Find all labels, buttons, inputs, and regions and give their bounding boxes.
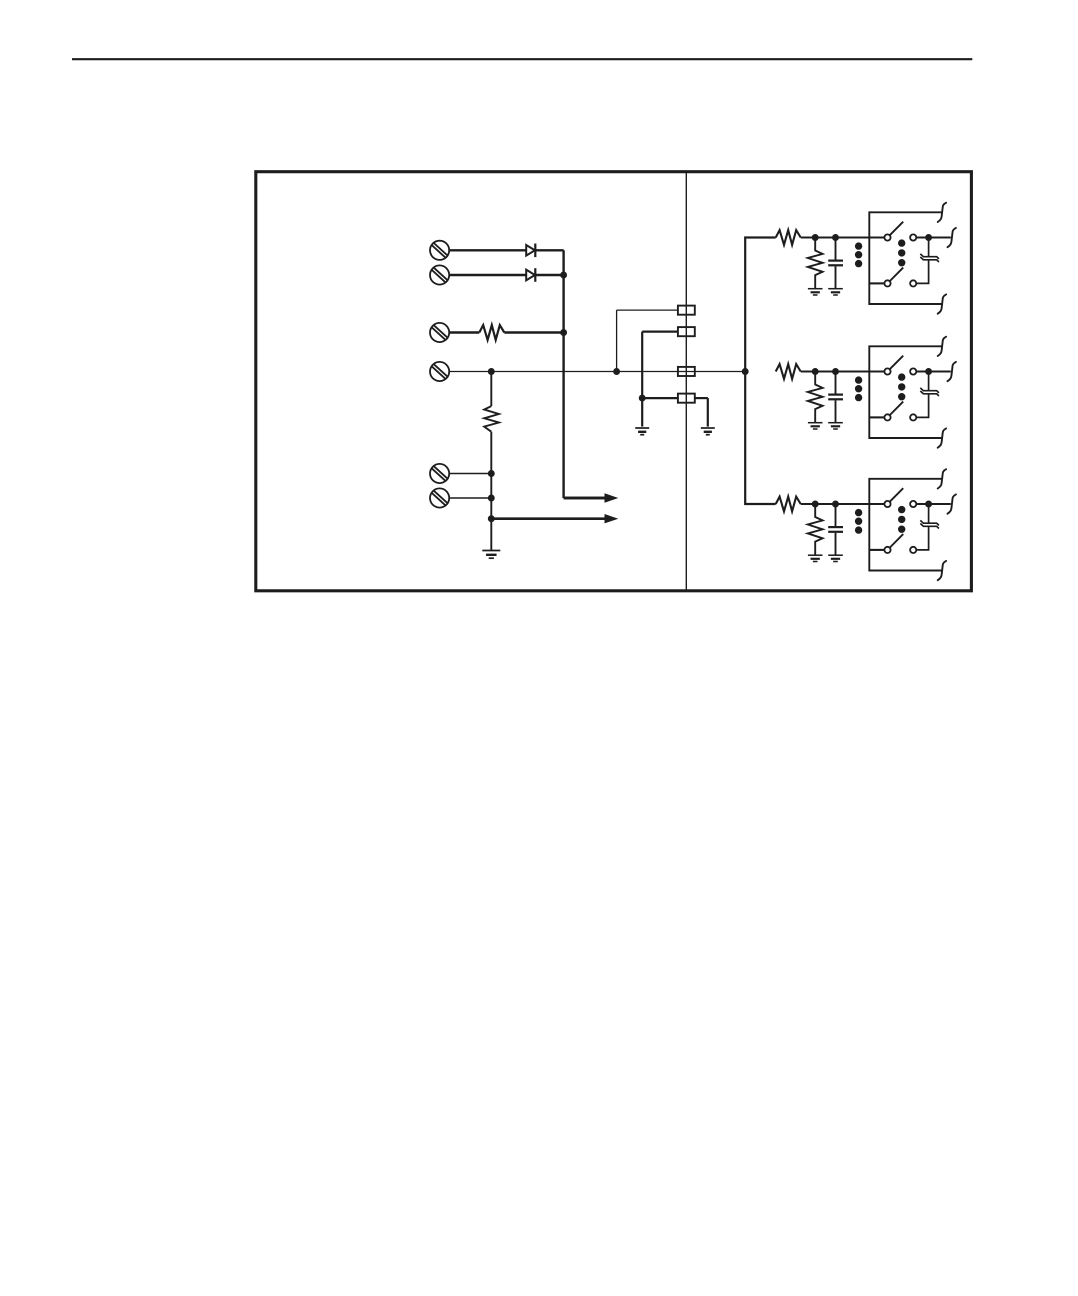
wire K3 output to hook — [916, 503, 951, 505]
switch arm K3 contact 1 — [890, 488, 903, 501]
wire drop to node E — [616, 310, 618, 371]
wire relay K1 lower contact feed — [869, 282, 884, 284]
wire T6 to node G — [449, 497, 491, 499]
cable hook K3 bottom — [938, 561, 946, 580]
relay K2 outline box — [869, 346, 942, 438]
junction node H — [488, 515, 495, 522]
mechanical link dots K1 — [898, 239, 905, 266]
capacitor C2b (bent-plate) — [916, 375, 939, 418]
contact pivot circle K1-1L — [884, 234, 890, 240]
junction node E — [613, 368, 620, 375]
contact pivot circle K3-1L — [884, 501, 890, 507]
relay K1 outline box — [869, 212, 942, 304]
contact pivot circle K3-2L — [884, 547, 890, 553]
contact circle K1-1R — [910, 234, 916, 240]
resistor R3a — [776, 497, 801, 512]
contact circle K3-1R — [910, 501, 916, 507]
schematic outer border box — [256, 172, 972, 591]
wire bus corner to arrow 1 — [564, 497, 605, 500]
contact pivot circle K2-2L — [884, 414, 890, 420]
wire relay K2 lower contact feed — [869, 416, 884, 418]
contact circle K2-2R — [910, 414, 916, 420]
switch arm K1 contact 2 — [890, 268, 903, 281]
ground G2a — [808, 423, 823, 429]
contact pivot circle K2-1L — [884, 368, 890, 374]
ground G1a — [808, 289, 823, 295]
resistor R2a — [776, 364, 801, 379]
cable hook K2 top — [938, 337, 946, 356]
resistor R2 — [484, 406, 499, 432]
connector pin J1 — [678, 306, 695, 315]
wire R3a into relay K3 — [801, 503, 885, 505]
terminal screw T2 — [430, 265, 449, 284]
switch arm K3 contact 2 — [890, 534, 903, 547]
wire D1 to corner node — [535, 249, 563, 251]
connector pin J3 — [678, 367, 695, 376]
resistor R1b — [808, 238, 823, 289]
vertical divider line (module boundary) — [685, 172, 687, 591]
junction node 3a — [812, 501, 819, 508]
contact circle K1-2R — [910, 280, 916, 286]
junction node I — [639, 395, 646, 402]
wire drop to node I — [641, 332, 643, 399]
junction node 2a — [812, 368, 819, 375]
junction node F — [488, 470, 495, 477]
top horizontal rule — [72, 58, 972, 60]
terminal screw T5 — [430, 464, 449, 483]
junction node 2b — [832, 368, 839, 375]
junction node 2c — [925, 368, 932, 375]
wire R2a into relay K2 — [801, 370, 885, 372]
diode D1 — [526, 244, 535, 258]
wire T1 to diode D1 — [449, 249, 526, 251]
capacitor C1a — [828, 238, 843, 289]
wire T2 to diode D2 — [449, 274, 526, 276]
cable hook K3 top — [938, 469, 946, 488]
vertical bus wire from D1/D2 down to arrow row — [562, 250, 564, 498]
terminal screw T4 — [430, 362, 449, 381]
cable hook K3 middle — [948, 494, 956, 513]
junction node G — [488, 495, 495, 502]
capacitor C2a — [828, 372, 843, 423]
wire D2 to node B — [535, 274, 563, 276]
junction node C — [560, 329, 567, 336]
mechanical link dots K2 — [898, 373, 905, 400]
switch arm K2 contact 2 — [890, 402, 903, 415]
wire R2 down to ground G1 — [490, 432, 492, 551]
resistor R2b — [808, 372, 823, 423]
junction node 1a — [812, 234, 819, 241]
signal dots column (coil link) block 1 — [855, 242, 862, 267]
wire T5 to node F — [449, 473, 491, 475]
wire R1 to node C — [504, 331, 563, 333]
capacitor C1b (bent-plate) — [916, 241, 939, 284]
switch arm K1 contact 1 — [890, 222, 903, 235]
ground G1b — [828, 289, 843, 295]
capacitor C3a — [828, 504, 843, 555]
ground G2b — [828, 423, 843, 429]
wire K2 output to hook — [916, 370, 951, 372]
junction node 3b — [832, 501, 839, 508]
contact pivot circle K1-2L — [884, 280, 890, 286]
wire T4 common line to right section — [449, 371, 745, 373]
cable hook K1 top — [938, 203, 946, 222]
ground G1 — [482, 551, 500, 559]
wire connector J2 to vertical drop — [642, 331, 678, 333]
resistor R3b — [808, 504, 823, 555]
cable hook K1 bottom — [938, 294, 946, 313]
ground G2 — [635, 428, 649, 435]
signal dots column (coil link) block 3 — [855, 509, 862, 534]
junction node D — [488, 368, 495, 375]
wire R1a into relay K1 — [801, 236, 885, 238]
terminal screw T1 — [430, 241, 449, 260]
resistor R1a — [776, 230, 801, 245]
connector pin J4 — [678, 394, 695, 403]
relay K3 outline box — [869, 479, 942, 571]
wire connector J1 to vertical drop — [617, 309, 678, 311]
wire node I to connector J4 — [642, 397, 678, 399]
terminal screw T3 — [430, 323, 449, 342]
contact circle K2-1R — [910, 368, 916, 374]
diode D2 — [526, 268, 535, 282]
junction node 1b — [832, 234, 839, 241]
vertical branch bus wire on right section — [745, 238, 776, 505]
cable hook K1 middle — [948, 228, 956, 247]
switch arm K2 contact 1 — [890, 356, 903, 369]
junction node B — [560, 272, 567, 279]
resistor R1 — [479, 325, 504, 340]
signal arrow 2 — [491, 517, 606, 520]
wire K1 output to hook — [916, 236, 951, 238]
terminal screw T6 — [430, 488, 449, 507]
capacitor C3b (bent-plate) — [916, 507, 939, 550]
signal arrow 1 — [564, 497, 607, 500]
signal dots column (coil link) block 2 — [855, 376, 862, 401]
wire node I down to ground G2 — [641, 398, 643, 427]
ground G3a — [808, 555, 823, 561]
wire connector J4 to ground drop — [695, 397, 708, 399]
junction node J (branch bus) — [742, 368, 749, 375]
junction node 1c — [925, 234, 932, 241]
mechanical link dots K3 — [898, 506, 905, 533]
connector pin J2 — [678, 327, 695, 336]
ground G3b — [828, 555, 843, 561]
contact circle K3-2R — [910, 547, 916, 553]
wire node D down to resistor R2 — [490, 372, 492, 407]
wire down to ground G3 — [707, 398, 709, 427]
cable hook K2 middle — [948, 362, 956, 381]
cable hook K2 bottom — [938, 428, 946, 447]
wire T3 to resistor R1 — [449, 331, 479, 333]
wire relay K3 lower contact feed — [869, 549, 884, 551]
ground G3 — [701, 428, 715, 435]
junction node 3c — [925, 501, 932, 508]
